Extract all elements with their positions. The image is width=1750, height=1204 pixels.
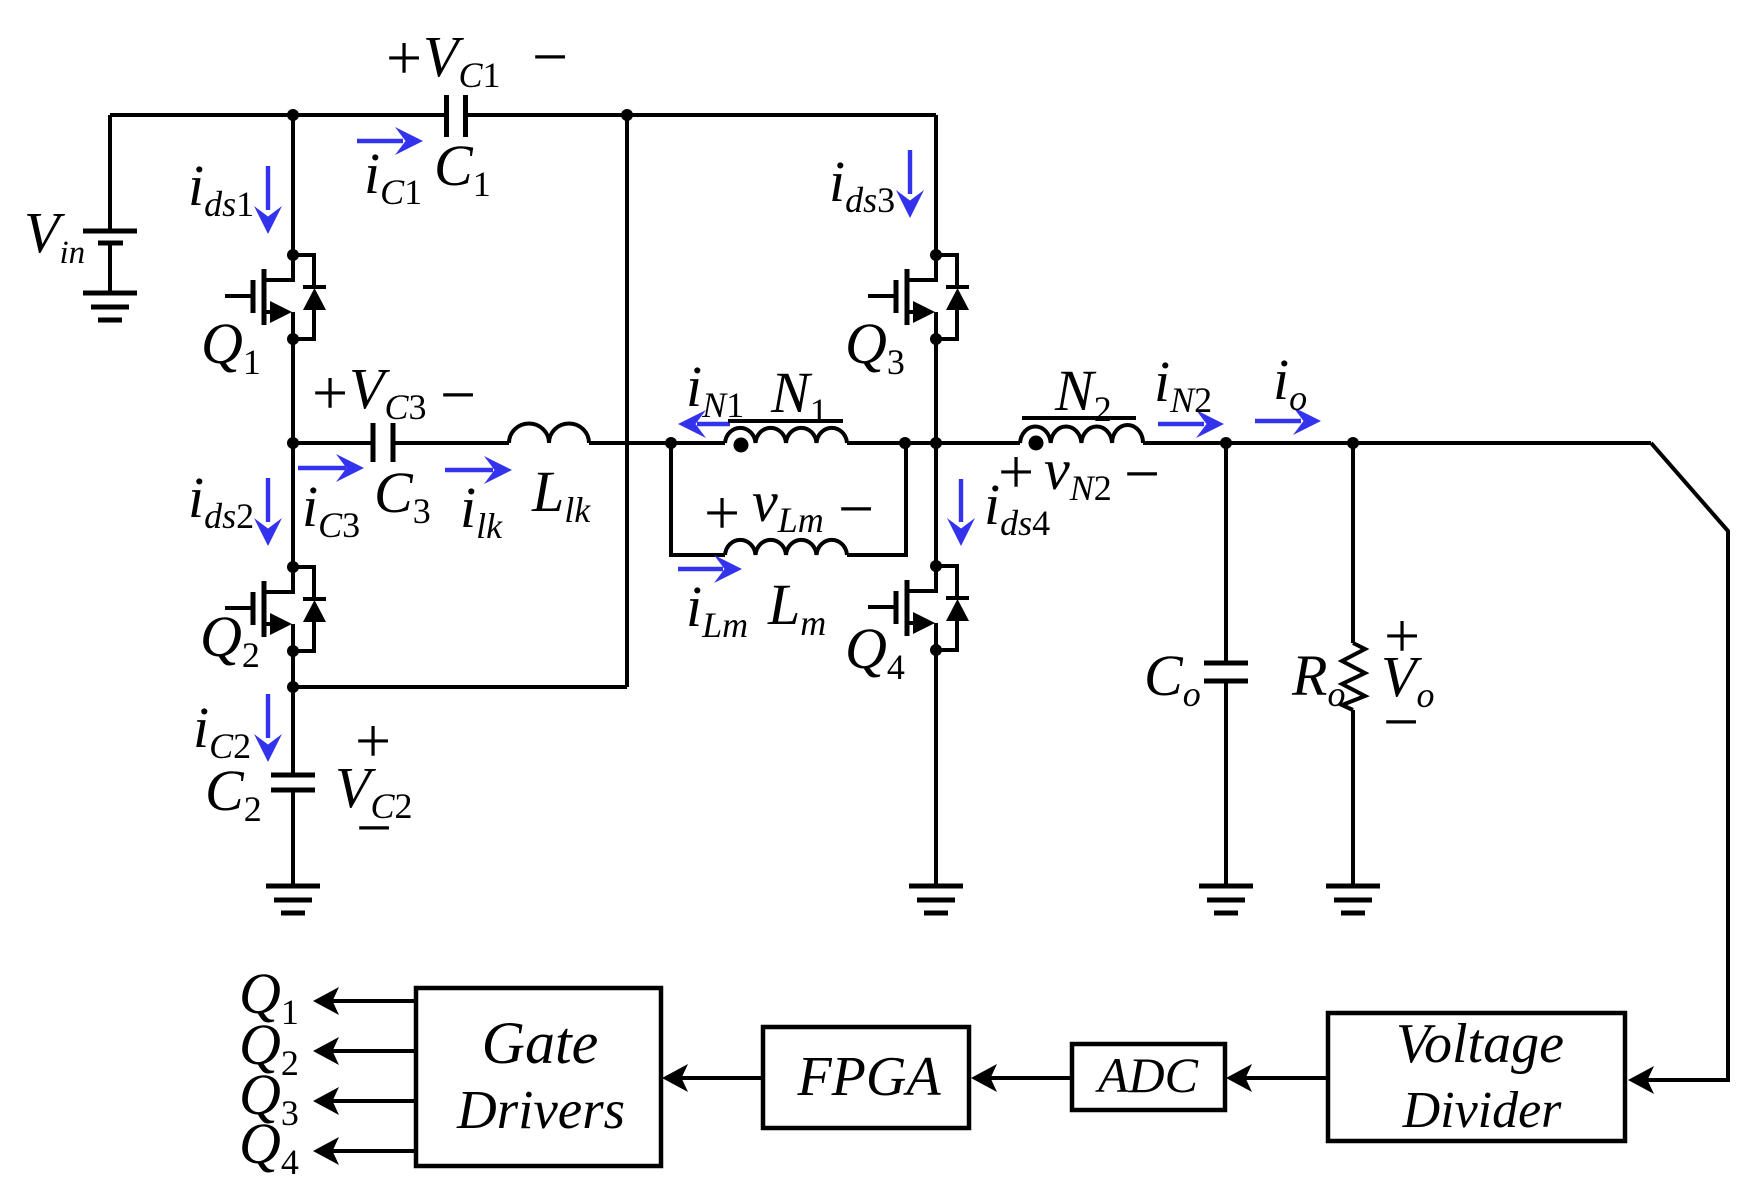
wire Lm right [847, 443, 906, 555]
svg-text:ids2: ids2 [188, 465, 254, 536]
N1 overbar [728, 419, 843, 423]
arrow FPGA to Gate Drivers [662, 1064, 763, 1092]
box FPGA [763, 1027, 969, 1128]
svg-text:ADC: ADC [1095, 1047, 1199, 1103]
ground (Vin) [83, 293, 137, 320]
wire below Q2 [291, 651, 295, 687]
wire mid rail seg2 [393, 441, 509, 445]
wire bottom return [293, 685, 627, 689]
ground (Co) [1199, 886, 1253, 913]
N1 polarity dot [734, 438, 749, 453]
arrow ids4 [947, 479, 975, 546]
svg-text:N1: N1 [770, 360, 828, 431]
arrow iLm [678, 555, 742, 583]
svg-text:+: + [386, 22, 422, 93]
svg-text:−: − [440, 359, 476, 430]
winding Lm [725, 540, 847, 555]
box ADC [1072, 1044, 1225, 1110]
wire left leg middle [291, 339, 295, 567]
node H (Co tap) [1220, 437, 1232, 449]
svg-text:Divider: Divider [1402, 1082, 1563, 1139]
arrow ids2 [254, 478, 282, 546]
svg-text:Q4: Q4 [845, 616, 905, 687]
winding N1 [725, 428, 847, 443]
node B (top right of C1) [621, 109, 633, 121]
svg-text:Co: Co [1144, 643, 1201, 714]
arrow gate signal Q1 [313, 987, 416, 1015]
transistor Q2 [225, 561, 326, 657]
inductor Llk [509, 424, 589, 444]
svg-text:C3: C3 [374, 460, 431, 531]
svg-text:VC3: VC3 [349, 356, 426, 427]
wire Ro upper [1351, 443, 1355, 643]
ground (C2) [266, 886, 320, 913]
svg-text:−: − [1383, 686, 1419, 757]
svg-text:vLm: vLm [752, 469, 824, 540]
node A (top left) [287, 109, 299, 121]
svg-text:ids3: ids3 [829, 149, 895, 220]
wire Co lower [1224, 681, 1228, 886]
magnetizing loop Lm [671, 443, 725, 555]
svg-text:−: − [356, 792, 392, 863]
arrow ADC to FPGA [971, 1064, 1072, 1092]
node E (N1 left) [665, 437, 677, 449]
svg-text:ilk: ilk [460, 475, 503, 546]
arrow ids3 [896, 150, 924, 218]
svg-text:Vin: Vin [24, 200, 85, 271]
capacitor Co [1204, 663, 1248, 681]
svg-text:iLm: iLm [686, 574, 748, 645]
node G (mid right) [930, 437, 942, 449]
svg-text:iN1: iN1 [686, 354, 744, 425]
svg-text:vN2: vN2 [1044, 437, 1112, 508]
node D (bottom left) [287, 681, 299, 693]
arrow iN2 [1158, 410, 1224, 438]
wire top rail right [466, 113, 936, 117]
svg-text:C1: C1 [434, 133, 491, 204]
node F (N1 right) [899, 437, 911, 449]
svg-text:ids1: ids1 [188, 153, 254, 224]
node C (mid left) [287, 437, 299, 449]
arrow iC1 [357, 127, 423, 155]
svg-text:Ro: Ro [1291, 643, 1345, 714]
svg-text:iC2: iC2 [193, 695, 251, 766]
arrow iC3 [298, 454, 364, 482]
svg-text:FPGA: FPGA [796, 1046, 941, 1108]
wire mid rail seg4 [847, 441, 1020, 445]
svg-text:+: + [704, 477, 740, 548]
arrow ilk [445, 456, 512, 484]
N2 overbar [1022, 416, 1136, 420]
svg-text:VC1: VC1 [423, 24, 500, 95]
svg-text:−: − [532, 21, 568, 92]
svg-text:iN2: iN2 [1154, 349, 1212, 420]
N2 polarity dot [1029, 436, 1044, 451]
arrow iC2 [254, 694, 282, 762]
svg-text:Llk: Llk [531, 459, 591, 530]
svg-text:+: + [998, 436, 1034, 507]
arrow ids1 [254, 166, 282, 234]
wire Co upper [1224, 443, 1228, 663]
ground (Ro) [1326, 886, 1380, 913]
svg-text:Gate: Gate [482, 1010, 599, 1076]
svg-text:io: io [1273, 347, 1307, 418]
svg-text:Q3: Q3 [845, 311, 905, 382]
capacitor C3 [373, 423, 393, 462]
arrow io [1255, 407, 1321, 435]
ground (Q4) [909, 886, 963, 913]
wire to C2 [291, 687, 295, 775]
svg-text:N2: N2 [1054, 358, 1112, 429]
winding N2 [1020, 425, 1143, 443]
wire C2 to ground [291, 790, 295, 886]
transistor Q1 [225, 249, 326, 345]
resistor Ro [1342, 643, 1365, 710]
arrow Voltage Divider to ADC [1226, 1064, 1328, 1092]
svg-text:Voltage: Voltage [1396, 1013, 1564, 1075]
wire right leg upper [934, 115, 938, 255]
capacitor C2 [271, 775, 315, 790]
capacitor C1 [447, 95, 466, 137]
wire Q4 to ground [934, 650, 938, 886]
wire top rail left [110, 113, 446, 117]
arrow feedback into Voltage Divider [1628, 1066, 1654, 1094]
transistor Q4 [868, 560, 969, 656]
svg-text:Q1: Q1 [201, 311, 261, 382]
wire Ro lower [1351, 710, 1355, 886]
box Voltage Divider [1328, 1013, 1625, 1141]
battery Vin [83, 115, 137, 293]
svg-text:iC1: iC1 [364, 141, 422, 212]
wire vertical C1 branch [625, 115, 629, 687]
wire left leg upper [291, 115, 295, 255]
svg-text:iC3: iC3 [302, 474, 360, 545]
wire output corner [1645, 443, 1728, 1080]
svg-text:−: − [838, 473, 874, 544]
wire mid rail seg5 [1143, 441, 1651, 445]
transistor Q3 [868, 249, 969, 345]
svg-text:C2: C2 [205, 758, 262, 829]
wire mid rail seg3 [589, 441, 725, 445]
box Gate Drivers [416, 988, 661, 1166]
arrow gate signal Q2 [313, 1037, 416, 1065]
svg-text:−: − [1124, 438, 1160, 509]
wire mid rail seg1 [293, 441, 373, 445]
node I (Ro tap) [1347, 437, 1359, 449]
svg-text:+: + [312, 357, 348, 428]
arrow gate signal Q4 [313, 1137, 416, 1165]
arrow gate signal Q3 [313, 1087, 416, 1115]
arrow iN1 [678, 410, 730, 438]
label Vo [1381, 600, 1434, 757]
wire right leg middle [934, 339, 938, 566]
svg-text:Lm: Lm [767, 572, 826, 643]
svg-text:Drivers: Drivers [456, 1079, 625, 1140]
